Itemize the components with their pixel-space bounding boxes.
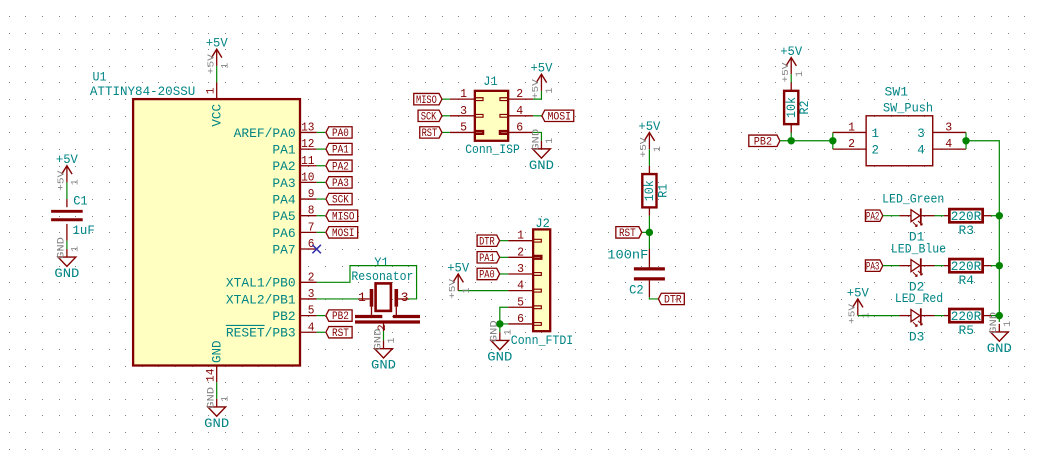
svg-text:6: 6 xyxy=(516,121,523,134)
svg-text:4: 4 xyxy=(917,144,925,158)
svg-text:6: 6 xyxy=(308,238,315,251)
svg-text:Conn_ISP: Conn_ISP xyxy=(465,143,520,157)
svg-text:1: 1 xyxy=(517,230,524,243)
svg-text:MISO: MISO xyxy=(416,95,437,107)
svg-text:9: 9 xyxy=(308,188,315,201)
svg-text:RST: RST xyxy=(332,328,349,340)
svg-text:PA2: PA2 xyxy=(272,159,295,174)
svg-text:11: 11 xyxy=(301,155,314,168)
svg-text:5: 5 xyxy=(460,121,467,134)
svg-text:2: 2 xyxy=(517,246,524,259)
svg-text:LED_Green: LED_Green xyxy=(882,192,944,206)
svg-text:PB2: PB2 xyxy=(754,136,772,148)
svg-text:+5V: +5V xyxy=(56,170,67,190)
svg-text:LED_Blue: LED_Blue xyxy=(891,242,946,256)
svg-text:1: 1 xyxy=(462,287,473,293)
svg-text:C1: C1 xyxy=(73,194,88,208)
svg-text:MOSI: MOSI xyxy=(332,228,354,240)
svg-text:+5V: +5V xyxy=(846,304,857,324)
svg-text:GND: GND xyxy=(210,340,225,363)
svg-text:PA2: PA2 xyxy=(866,211,880,223)
svg-text:4: 4 xyxy=(517,280,524,293)
svg-text:GND: GND xyxy=(529,159,554,173)
svg-text:220R: 220R xyxy=(951,259,982,274)
svg-text:1: 1 xyxy=(387,338,398,344)
svg-text:PB2: PB2 xyxy=(332,311,349,323)
svg-text:3: 3 xyxy=(308,288,315,301)
svg-text:1uF: 1uF xyxy=(73,224,95,238)
svg-text:GND: GND xyxy=(204,417,229,431)
svg-text:+5V: +5V xyxy=(847,286,869,300)
svg-text:+5V: +5V xyxy=(56,153,78,167)
svg-text:8: 8 xyxy=(308,205,315,218)
svg-text:RESET/PB3: RESET/PB3 xyxy=(226,326,296,341)
svg-text:PB2: PB2 xyxy=(272,309,295,324)
svg-text:+5V: +5V xyxy=(530,62,552,76)
svg-text:4: 4 xyxy=(516,105,523,118)
svg-text:MISO: MISO xyxy=(332,211,355,223)
svg-text:Conn_FTDI: Conn_FTDI xyxy=(511,334,573,348)
svg-text:3: 3 xyxy=(917,127,925,141)
svg-text:1: 1 xyxy=(848,121,855,134)
svg-text:PA3: PA3 xyxy=(332,178,349,190)
svg-text:SCK: SCK xyxy=(421,111,437,123)
svg-text:1: 1 xyxy=(545,138,556,144)
svg-text:13: 13 xyxy=(301,121,314,134)
svg-text:C2: C2 xyxy=(629,284,644,298)
svg-text:R5: R5 xyxy=(959,324,975,338)
svg-text:220R: 220R xyxy=(951,309,982,324)
svg-text:5: 5 xyxy=(517,296,524,309)
svg-text:+5V: +5V xyxy=(530,79,541,99)
svg-text:10k: 10k xyxy=(643,180,657,201)
svg-text:2: 2 xyxy=(848,138,855,151)
svg-text:2: 2 xyxy=(308,271,315,284)
svg-text:MOSI: MOSI xyxy=(547,111,571,123)
svg-text:6: 6 xyxy=(517,313,524,326)
svg-text:LED_Red: LED_Red xyxy=(895,292,943,306)
svg-text:GND: GND xyxy=(54,267,79,281)
svg-text:10k: 10k xyxy=(785,97,799,118)
svg-text:D3: D3 xyxy=(909,331,925,345)
svg-text:220R: 220R xyxy=(951,209,982,224)
svg-text:1: 1 xyxy=(653,146,664,152)
svg-text:3: 3 xyxy=(401,290,409,305)
svg-text:PA5: PA5 xyxy=(272,209,295,224)
svg-text:1: 1 xyxy=(71,246,82,252)
svg-text:GND: GND xyxy=(987,342,1012,356)
svg-text:100nF: 100nF xyxy=(607,249,648,263)
svg-text:J2: J2 xyxy=(535,217,550,231)
svg-text:+5V: +5V xyxy=(205,54,216,74)
svg-text:GND: GND xyxy=(373,329,384,351)
svg-text:R1: R1 xyxy=(656,184,670,198)
svg-text:1: 1 xyxy=(220,396,231,402)
svg-text:U1: U1 xyxy=(93,71,107,85)
svg-text:RST: RST xyxy=(619,228,636,240)
svg-text:PA1: PA1 xyxy=(272,143,295,158)
svg-text:GND: GND xyxy=(487,350,512,364)
svg-text:GND: GND xyxy=(207,387,218,409)
svg-text:GND: GND xyxy=(371,359,396,373)
svg-text:1: 1 xyxy=(503,329,514,335)
svg-text:DTR: DTR xyxy=(479,236,495,248)
svg-text:XTAL1/PB0: XTAL1/PB0 xyxy=(226,276,296,291)
svg-text:5: 5 xyxy=(308,305,315,318)
svg-text:1: 1 xyxy=(205,87,217,94)
svg-text:2: 2 xyxy=(872,144,880,158)
svg-text:14: 14 xyxy=(205,368,217,382)
svg-text:2: 2 xyxy=(516,88,523,101)
svg-text:Y1: Y1 xyxy=(374,256,389,270)
svg-text:SW_Push: SW_Push xyxy=(883,102,933,116)
svg-text:AREF/PA0: AREF/PA0 xyxy=(234,126,296,141)
svg-text:+5V: +5V xyxy=(780,45,802,59)
svg-text:PA7: PA7 xyxy=(272,242,295,257)
svg-text:SW1: SW1 xyxy=(885,85,909,99)
svg-text:7: 7 xyxy=(308,221,315,234)
svg-text:VCC: VCC xyxy=(210,104,225,127)
svg-text:1: 1 xyxy=(872,127,880,141)
svg-text:XTAL2/PB1: XTAL2/PB1 xyxy=(226,292,296,307)
svg-text:PA1: PA1 xyxy=(332,145,349,157)
svg-text:PA0: PA0 xyxy=(332,128,349,140)
svg-text:4: 4 xyxy=(945,138,952,151)
svg-text:R2: R2 xyxy=(798,100,812,114)
svg-text:3: 3 xyxy=(945,121,952,134)
svg-text:10: 10 xyxy=(301,171,314,184)
svg-text:PA4: PA4 xyxy=(272,192,295,207)
svg-text:3: 3 xyxy=(517,263,524,276)
svg-text:+5V: +5V xyxy=(638,120,660,134)
svg-text:PA1: PA1 xyxy=(479,253,495,265)
svg-text:SCK: SCK xyxy=(332,195,349,207)
svg-text:3: 3 xyxy=(460,105,467,118)
svg-text:+5V: +5V xyxy=(638,137,649,157)
svg-text:ATTINY84-20SSU: ATTINY84-20SSU xyxy=(90,85,195,99)
svg-text:J1: J1 xyxy=(483,75,498,89)
svg-text:PA0: PA0 xyxy=(479,270,495,282)
svg-text:1: 1 xyxy=(460,88,467,101)
svg-text:+5V: +5V xyxy=(447,261,469,275)
svg-text:1: 1 xyxy=(358,290,366,305)
svg-text:PA3: PA3 xyxy=(272,176,295,191)
svg-text:GND: GND xyxy=(531,129,542,151)
svg-text:1: 1 xyxy=(220,63,231,69)
svg-text:4: 4 xyxy=(308,321,315,334)
svg-text:RST: RST xyxy=(422,128,438,140)
svg-text:1: 1 xyxy=(71,179,82,185)
svg-text:12: 12 xyxy=(301,138,314,151)
svg-text:1: 1 xyxy=(1003,321,1014,327)
svg-text:+5V: +5V xyxy=(780,62,791,82)
svg-text:1: 1 xyxy=(795,71,806,77)
svg-text:DTR: DTR xyxy=(664,295,682,307)
svg-text:GND: GND xyxy=(57,237,68,259)
svg-text:PA6: PA6 xyxy=(272,226,295,241)
svg-text:+5V: +5V xyxy=(206,37,228,51)
svg-text:R3: R3 xyxy=(959,224,975,238)
svg-text:GND: GND xyxy=(490,320,501,342)
svg-text:+5V: +5V xyxy=(447,279,458,299)
svg-text:R4: R4 xyxy=(959,274,975,288)
svg-text:1: 1 xyxy=(545,88,556,94)
svg-text:PA3: PA3 xyxy=(866,261,880,273)
svg-text:PA2: PA2 xyxy=(332,161,349,173)
